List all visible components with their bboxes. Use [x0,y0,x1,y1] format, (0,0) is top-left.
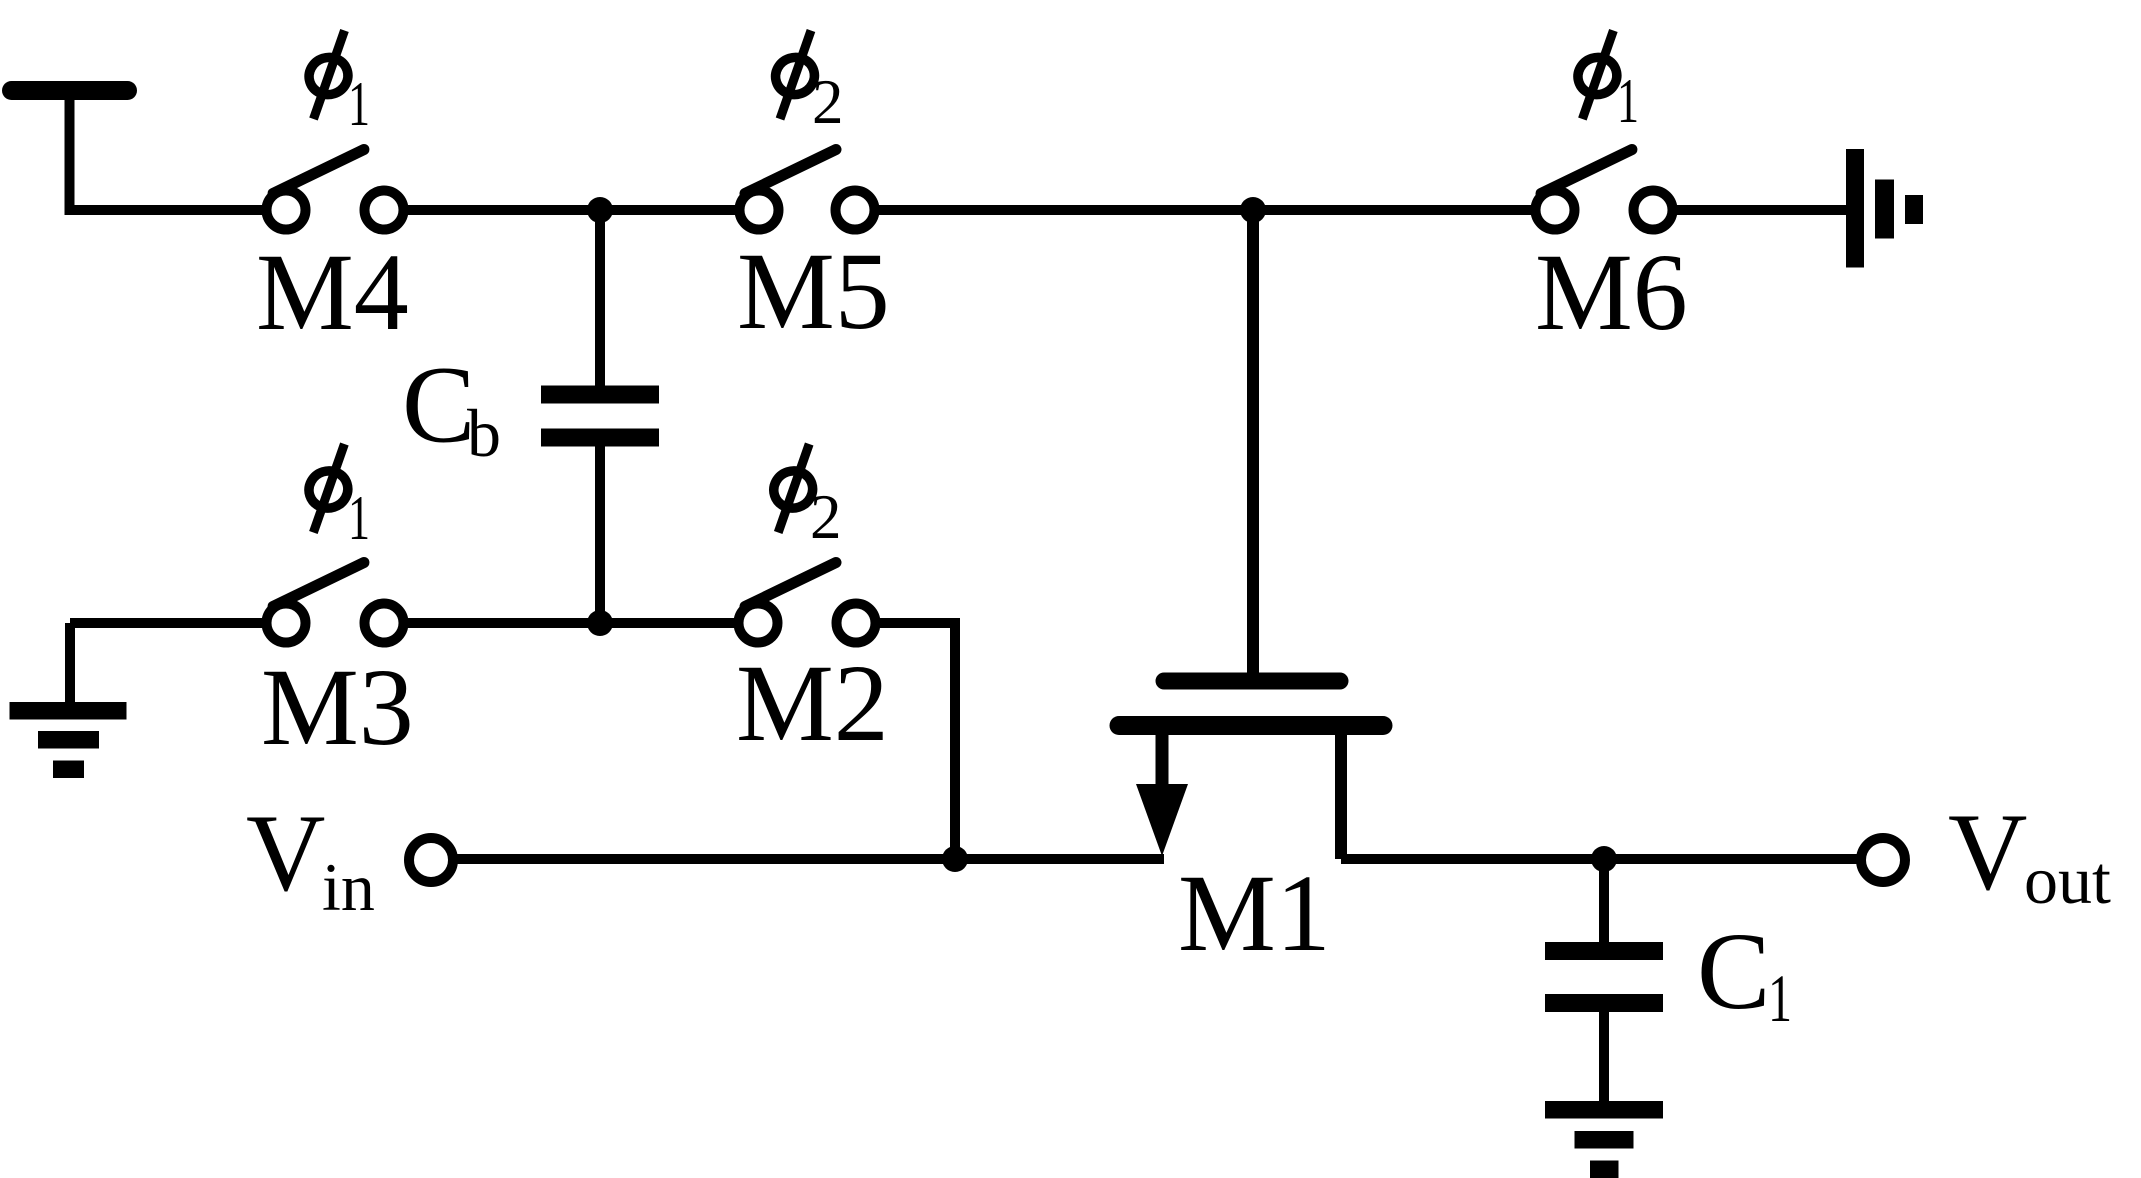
svg-text:1: 1 [1768,960,1792,1036]
wire M2 to Vin line (elbow) [856,623,955,859]
capacitor Cb [541,386,659,447]
svg-text:1: 1 [348,483,370,553]
label phi2 (above M2) [769,444,842,552]
wire Cb bottom lead [595,442,605,623]
wire C1 bottom lead [1599,1008,1609,1105]
svg-text:M4: M4 [256,231,409,353]
svg-text:C: C [402,344,475,466]
wire top rail segment 1 (supply to M4) [70,205,288,215]
svg-text:M6: M6 [1535,231,1688,353]
wire top rail segment 2 (M4 to M5) [384,205,759,215]
wire M1 gate lead [1247,210,1259,678]
wire top rail segment 4 (M6 to right ground) [1653,205,1848,215]
switch M2 [739,563,876,643]
wire C1 top lead [1599,859,1609,946]
label Vout [1948,791,2111,918]
node B junction (bottom of Cb) [587,610,613,636]
terminal Vout [1861,838,1905,882]
svg-text:b: b [467,395,501,471]
wire Cb top lead [595,210,605,390]
svg-text:C: C [1697,910,1770,1032]
svg-text:2: 2 [810,482,842,552]
svg-text:V: V [246,792,325,914]
ground (below C1) [1545,1101,1663,1178]
node gate junction (top rail above M1) [1240,197,1266,223]
svg-text:V: V [1948,791,2027,913]
svg-text:out: out [2024,842,2111,918]
svg-text:2: 2 [812,67,844,137]
node D junction (output / C1) [1591,846,1617,872]
switch M6 [1536,150,1673,230]
label Vin [246,792,375,925]
switch M3 [267,563,404,643]
terminal Vin [409,838,453,882]
ground (right, rotated) [1846,149,1923,268]
ground (bottom-left) [10,702,127,778]
transistor M1 [1119,681,1383,859]
node C junction (Vin line / M2 elbow) [942,846,968,872]
svg-text:M2: M2 [736,642,889,764]
capacitor C1 [1545,942,1663,1012]
supply rail symbol top-left [2,81,137,215]
svg-text:in: in [322,849,375,925]
svg-text:M5: M5 [737,230,890,352]
label phi1 (above M4) [304,31,370,140]
wire ground stem bottom-left [65,623,75,705]
label phi2 (above M5) [771,31,844,138]
svg-text:M1: M1 [1178,852,1331,974]
svg-text:1: 1 [348,69,370,139]
label phi1 (above M3) [304,444,370,553]
label C1 [1697,910,1792,1036]
switch M4 [267,150,404,230]
label Cb [402,344,501,472]
node A junction (top of Cb) [587,197,613,223]
wire Vin line [453,854,1164,864]
switch M5 [740,150,875,230]
svg-text:1: 1 [1617,66,1639,136]
wire bottom-left row segment 1 (ground to M3) [70,618,287,628]
wire output line (M1 drain to Vout) [1341,854,1861,864]
wire bottom-left row segment 2 (M3 to M2) [384,618,758,628]
wire top rail segment 3 (M5 to M6) [855,205,1555,215]
svg-text:M3: M3 [261,646,414,768]
label phi1 (above M6) [1573,31,1639,137]
